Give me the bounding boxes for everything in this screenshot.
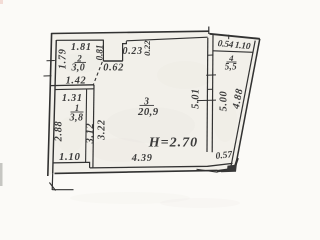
svg-text:3,8: 3,8 <box>69 113 84 124</box>
svg-text:5,5: 5,5 <box>225 62 237 72</box>
svg-text:3.22: 3.22 <box>97 119 108 141</box>
wire room2 right wall <box>102 40 104 61</box>
wire divider room1-2 upper <box>50 84 94 87</box>
wire slant wall bottom stub <box>234 158 238 170</box>
svg-text:5.00: 5.00 <box>218 91 229 112</box>
wire bottom right diagonal <box>197 169 218 172</box>
label room2 fraction bar <box>75 61 87 63</box>
svg-text:20,9: 20,9 <box>137 106 159 118</box>
svg-text:1.42: 1.42 <box>66 76 87 87</box>
wire left outer wall <box>48 33 52 176</box>
wire left wall tick upper <box>47 60 55 62</box>
wire wall room3-4 left line <box>206 38 209 152</box>
svg-text:1.81: 1.81 <box>71 42 92 53</box>
wire arrow tail <box>52 189 73 191</box>
node bottom-right hatch blob <box>221 165 237 173</box>
svg-text:2.88: 2.88 <box>54 121 65 143</box>
svg-text:3.12: 3.12 <box>85 123 96 145</box>
node plan interior paper tint <box>48 31 260 175</box>
label room1 fraction bar <box>71 111 84 113</box>
svg-text:1.10: 1.10 <box>59 151 81 163</box>
wire niche lintel <box>103 60 122 62</box>
wire bottom hatch tick <box>217 170 229 172</box>
wire dim tick y100 <box>197 99 216 102</box>
wire top-right slant edge <box>210 34 260 39</box>
wire top inner right <box>126 37 207 41</box>
wire top outer wall <box>51 31 209 33</box>
svg-text:3,0: 3,0 <box>70 63 85 74</box>
wire wall room3-4 right line <box>211 35 214 152</box>
svg-text:1.79: 1.79 <box>57 48 68 69</box>
wire room4 inner top <box>214 51 254 53</box>
wire right slant outer <box>236 39 260 167</box>
label room3 fraction bar <box>140 104 155 106</box>
wire door swing dashed <box>93 62 102 86</box>
wire room1 right wall inner <box>86 89 87 162</box>
wire niche right jamb <box>123 41 127 61</box>
wire arrow vertical <box>51 173 54 190</box>
svg-text:0.22: 0.22 <box>142 40 152 56</box>
svg-text:5.01: 5.01 <box>191 88 202 109</box>
wire tick on wall y55 <box>208 54 214 56</box>
svg-text:0.81: 0.81 <box>95 45 105 61</box>
wire tick on wall y89 <box>207 88 212 90</box>
svg-text:1: 1 <box>75 103 80 113</box>
svg-text:1.31: 1.31 <box>62 93 83 104</box>
wire tick on slant edge <box>228 35 230 39</box>
wire room1 floor <box>53 162 90 168</box>
svg-text:0.23: 0.23 <box>123 46 143 57</box>
wire divider room1-2 lower <box>55 88 94 91</box>
wire room1 right wall outer <box>93 85 94 168</box>
wire left inner wall <box>53 40 57 173</box>
wire top inner room2 <box>56 39 104 41</box>
node scan mottling <box>0 0 240 208</box>
wire bottom inner floor room3 <box>90 163 233 168</box>
wire right slant inner <box>231 41 255 167</box>
wire tick on wall y75 <box>206 74 216 76</box>
svg-text:4.39: 4.39 <box>131 153 153 164</box>
wire bottom outer wall <box>55 170 218 173</box>
svg-text:0.57: 0.57 <box>215 150 234 162</box>
label room4 fraction bar <box>227 61 237 63</box>
wire spur above top wall <box>208 27 210 35</box>
svg-text:H=2.70: H=2.70 <box>148 136 198 151</box>
svg-text:0.62: 0.62 <box>103 62 124 73</box>
wire arrow slash <box>49 183 55 191</box>
wire left wall tick lower <box>44 75 52 77</box>
